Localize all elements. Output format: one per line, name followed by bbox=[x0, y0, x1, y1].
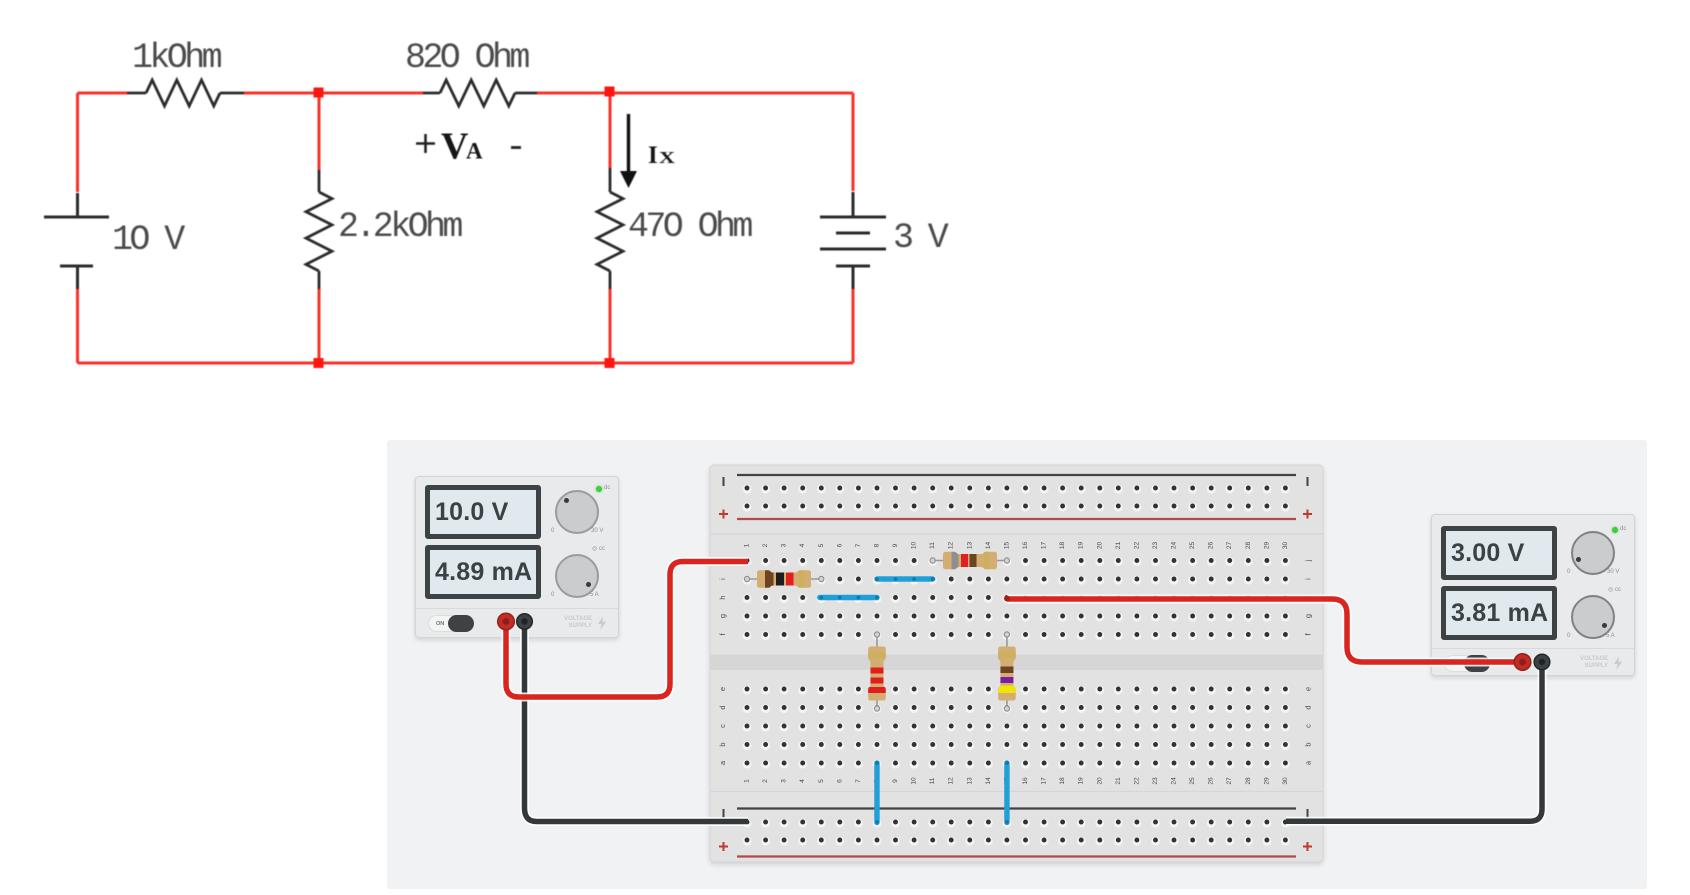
label 1kOhm bbox=[132, 38, 222, 78]
svg-text:26: 26 bbox=[1208, 542, 1215, 550]
switch ON bbox=[1444, 655, 1490, 672]
svg-text:2: 2 bbox=[762, 543, 769, 547]
jumper wire blue h5-h8 bbox=[819, 596, 879, 600]
svg-text:28: 28 bbox=[1245, 542, 1252, 550]
resistor 1kOhm breadboard i1-i5 bbox=[744, 570, 824, 588]
svg-text:7: 7 bbox=[855, 779, 862, 783]
svg-text:6: 6 bbox=[836, 543, 843, 547]
knob current bbox=[1571, 595, 1615, 639]
battery V2 3V bbox=[820, 192, 886, 289]
icon lightning bbox=[597, 616, 607, 630]
svg-text:11: 11 bbox=[929, 542, 936, 549]
svg-text:22: 22 bbox=[1133, 777, 1140, 785]
svg-text:20: 20 bbox=[1096, 542, 1103, 550]
knob voltage bbox=[1571, 531, 1615, 575]
label 470 Ohm bbox=[628, 207, 752, 247]
svg-text:18: 18 bbox=[1059, 542, 1066, 550]
svg-text:19: 19 bbox=[1078, 542, 1085, 550]
label 3 V bbox=[893, 218, 949, 258]
svg-text:4: 4 bbox=[799, 543, 806, 547]
svg-text:1: 1 bbox=[744, 543, 751, 547]
knob voltage bbox=[555, 490, 599, 534]
svg-text:c: c bbox=[718, 724, 727, 728]
svg-text:21: 21 bbox=[1115, 542, 1122, 550]
svg-text:9: 9 bbox=[892, 543, 899, 547]
label 820 Ohm bbox=[405, 38, 529, 78]
display current 3.81 mA bbox=[1441, 586, 1557, 640]
resistor 2.2kOhm breadboard f8-d8 bbox=[868, 632, 886, 711]
svg-text:27: 27 bbox=[1226, 777, 1233, 785]
svg-text:12: 12 bbox=[948, 777, 955, 785]
svg-text:c: c bbox=[1304, 724, 1313, 728]
knob current bbox=[555, 554, 599, 598]
svg-text:e: e bbox=[718, 687, 727, 691]
svg-text:13: 13 bbox=[966, 542, 973, 550]
svg-text:14: 14 bbox=[985, 542, 992, 550]
node A top-left junction bbox=[314, 88, 324, 98]
label Ix bbox=[648, 142, 675, 169]
simulation panel background bbox=[387, 440, 1647, 889]
label 2.2kOhm bbox=[338, 207, 462, 247]
svg-text:11: 11 bbox=[929, 777, 936, 784]
svg-text:17: 17 bbox=[1041, 777, 1048, 785]
switch ON bbox=[428, 615, 474, 632]
svg-text:25: 25 bbox=[1189, 542, 1196, 550]
wire black right PSU to breadboard minus rail col30 bbox=[1286, 664, 1542, 821]
svg-text:21: 21 bbox=[1115, 777, 1122, 785]
svg-text:e: e bbox=[1304, 687, 1313, 691]
svg-text:13: 13 bbox=[966, 777, 973, 785]
resistor R4 470 Ohm bbox=[597, 168, 623, 289]
svg-text:b: b bbox=[718, 742, 727, 746]
display voltage 10.0 V bbox=[425, 485, 541, 539]
svg-text:9: 9 bbox=[892, 779, 899, 783]
svg-text:10: 10 bbox=[911, 777, 918, 785]
svg-text:15: 15 bbox=[1003, 542, 1010, 550]
svg-text:j: j bbox=[1304, 559, 1313, 562]
node C bottom-left junction bbox=[314, 358, 324, 368]
svg-text:28: 28 bbox=[1245, 777, 1252, 785]
wire red breadboard h15 to right PSU bbox=[1007, 599, 1522, 662]
svg-text:29: 29 bbox=[1263, 542, 1270, 550]
jumper wire blue a8 to minus rail bbox=[875, 761, 879, 824]
svg-text:17: 17 bbox=[1041, 542, 1048, 550]
wire black left PSU to breadboard minus rail bbox=[525, 622, 749, 822]
svg-text:g: g bbox=[718, 614, 727, 618]
power supply PSU2 right bbox=[1431, 514, 1635, 676]
svg-text:18: 18 bbox=[1059, 777, 1066, 785]
svg-text:24: 24 bbox=[1171, 777, 1178, 785]
svg-text:19: 19 bbox=[1078, 777, 1085, 785]
node B top-right junction bbox=[605, 87, 615, 97]
resistor 820 Ohm breadboard j11-j15 bbox=[930, 552, 1009, 570]
svg-text:d: d bbox=[718, 705, 727, 709]
svg-text:5: 5 bbox=[818, 779, 825, 783]
svg-text:6: 6 bbox=[836, 779, 843, 783]
svg-text:h: h bbox=[718, 595, 727, 599]
svg-text:23: 23 bbox=[1152, 542, 1159, 550]
wire top rail red bbox=[78, 92, 854, 95]
wire left branch bbox=[76, 93, 79, 363]
svg-text:d: d bbox=[1304, 705, 1313, 709]
svg-text:3: 3 bbox=[781, 543, 788, 547]
svg-text:12: 12 bbox=[948, 542, 955, 550]
terminal black right PSU bbox=[1534, 654, 1550, 670]
wire right branch bbox=[852, 93, 855, 363]
svg-text:30: 30 bbox=[1282, 777, 1289, 785]
current arrow Ix bbox=[620, 114, 637, 188]
label 10 V bbox=[112, 220, 185, 260]
label VA polarity bbox=[416, 126, 521, 168]
svg-text:10: 10 bbox=[911, 542, 918, 550]
LED power indicator bbox=[596, 486, 602, 492]
resistor 470 Ohm breadboard f15-d15 bbox=[998, 632, 1016, 711]
svg-text:24: 24 bbox=[1171, 542, 1178, 550]
top power rail lines bbox=[719, 475, 1312, 519]
terminal red left PSU bbox=[498, 613, 515, 630]
svg-text:25: 25 bbox=[1189, 777, 1196, 785]
svg-text:16: 16 bbox=[1022, 542, 1029, 550]
svg-text:27: 27 bbox=[1226, 542, 1233, 550]
display voltage 3.00 V bbox=[1441, 526, 1557, 580]
svg-text:b: b bbox=[1304, 742, 1313, 746]
svg-text:30: 30 bbox=[1282, 542, 1289, 550]
icon lightning bbox=[1613, 656, 1623, 670]
svg-text:j: j bbox=[718, 559, 727, 562]
svg-text:2: 2 bbox=[762, 779, 769, 783]
svg-text:g: g bbox=[1304, 614, 1313, 618]
svg-text:16: 16 bbox=[1022, 777, 1029, 785]
power supply PSU1 left bbox=[415, 476, 619, 638]
node D bottom-right junction bbox=[605, 358, 615, 368]
terminal red right PSU bbox=[1514, 654, 1531, 671]
svg-text:7: 7 bbox=[855, 543, 862, 547]
svg-text:4: 4 bbox=[799, 779, 806, 783]
svg-text:1: 1 bbox=[744, 779, 751, 783]
svg-text:5: 5 bbox=[818, 543, 825, 547]
jumper wire blue i8-i11 bbox=[875, 577, 935, 581]
svg-text:14: 14 bbox=[985, 777, 992, 785]
svg-text:26: 26 bbox=[1208, 777, 1215, 785]
display current 4.89 mA bbox=[425, 545, 541, 599]
resistor R3 2.2kOhm bbox=[306, 170, 332, 289]
bottom power rail lines bbox=[719, 809, 1312, 857]
svg-text:h: h bbox=[1304, 595, 1313, 599]
resistor R1 1kOhm bbox=[127, 80, 244, 106]
battery V1 10V bbox=[44, 193, 109, 289]
svg-text:3: 3 bbox=[781, 779, 788, 783]
terminal black left PSU bbox=[517, 614, 533, 630]
svg-text:29: 29 bbox=[1263, 777, 1270, 785]
jumper wire blue a15 to minus rail bbox=[1005, 761, 1009, 824]
wire bottom rail red bbox=[78, 362, 854, 365]
svg-text:20: 20 bbox=[1096, 777, 1103, 785]
svg-text:23: 23 bbox=[1152, 777, 1159, 785]
svg-text:22: 22 bbox=[1133, 542, 1140, 550]
svg-text:8: 8 bbox=[874, 543, 881, 547]
wire middle branch 2.2k bbox=[318, 93, 321, 363]
wire red left PSU to breadboard j1 bbox=[506, 562, 748, 698]
LED power indicator bbox=[1612, 527, 1618, 533]
resistor R2 820 Ohm bbox=[423, 80, 537, 106]
wire branch 470 bbox=[609, 93, 612, 363]
breadboard body bbox=[710, 465, 1323, 862]
